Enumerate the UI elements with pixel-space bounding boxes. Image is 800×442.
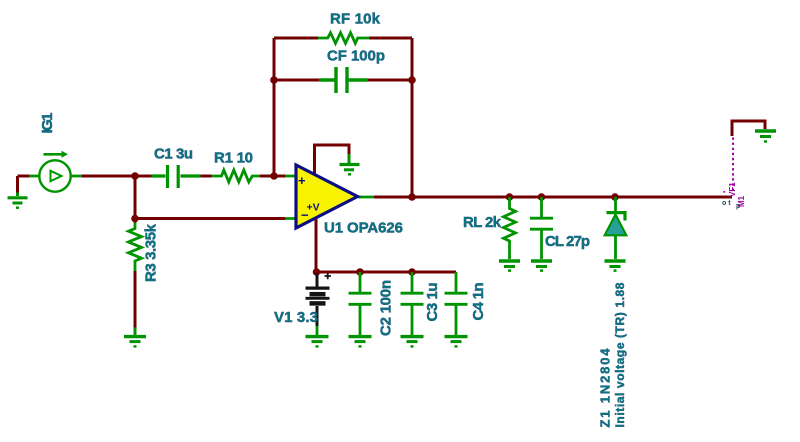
svg-text:p: p bbox=[736, 203, 740, 210]
svg-text:C1 3u: C1 3u bbox=[154, 146, 193, 163]
svg-text:V1 3.3: V1 3.3 bbox=[274, 309, 318, 326]
svg-text:C3 1u: C3 1u bbox=[424, 283, 441, 322]
svg-text:CF 100p: CF 100p bbox=[327, 48, 385, 65]
svg-text:U1 OPA626: U1 OPA626 bbox=[324, 220, 403, 237]
svg-text:o t: o t bbox=[722, 200, 731, 207]
svg-text:C4 1n: C4 1n bbox=[470, 283, 487, 321]
svg-text:VF1: VF1 bbox=[728, 182, 737, 197]
svg-text:+V: +V bbox=[307, 202, 320, 214]
svg-text:RF 10k: RF 10k bbox=[330, 11, 381, 28]
svg-text:RL 2k: RL 2k bbox=[463, 214, 502, 231]
svg-text:Initial voltage (TR) 1.88: Initial voltage (TR) 1.88 bbox=[613, 282, 627, 427]
svg-text:R1 10: R1 10 bbox=[214, 150, 253, 167]
svg-text:R3 3.35k: R3 3.35k bbox=[143, 223, 160, 282]
svg-text:Z1 1N2804: Z1 1N2804 bbox=[598, 348, 613, 428]
svg-text:IG1: IG1 bbox=[39, 113, 56, 134]
svg-text:C2 100n: C2 100n bbox=[378, 280, 395, 336]
svg-text:CL 27p: CL 27p bbox=[545, 233, 590, 250]
svg-text:+: + bbox=[298, 173, 306, 188]
